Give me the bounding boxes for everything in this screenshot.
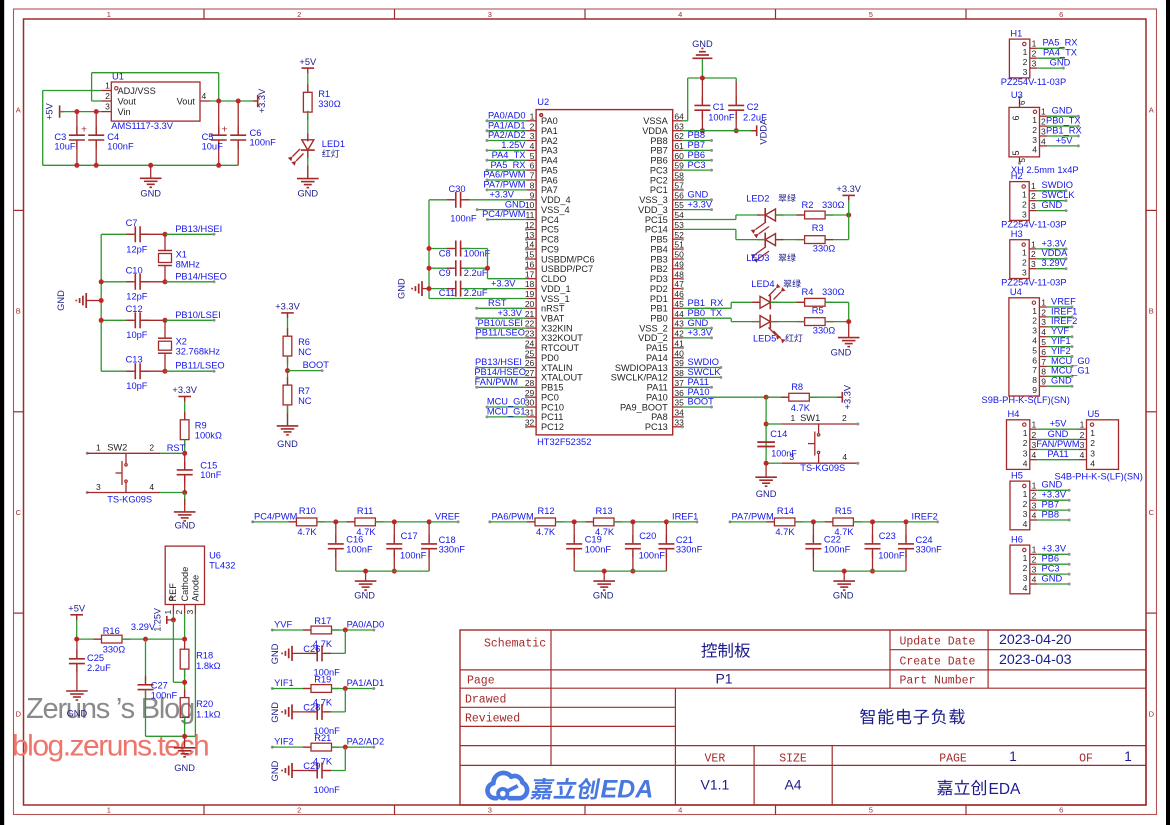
label U4 — [1010, 287, 1022, 297]
led LED5 — [752, 315, 786, 344]
open pin 52 — [681, 238, 684, 241]
net output PA0/AD0 — [347, 619, 385, 631]
capacitor C27 — [138, 639, 154, 736]
svg-text:PA2: PA2 — [541, 136, 558, 146]
capacitor C25 — [69, 639, 85, 681]
svg-text:PB8: PB8 — [1042, 509, 1060, 519]
svg-text:5: 5 — [869, 10, 873, 19]
label R4 330 — [802, 287, 845, 297]
net label SWDIO H2 pin1 — [1037, 180, 1073, 192]
svg-text:GND: GND — [1042, 573, 1063, 583]
svg-text:38: 38 — [674, 368, 684, 378]
net label PC3 pin59 — [682, 160, 713, 172]
title label Page — [467, 674, 495, 687]
svg-text:53: 53 — [674, 220, 684, 230]
svg-text:3: 3 — [1023, 448, 1028, 458]
svg-text:1: 1 — [1031, 181, 1036, 191]
svg-text:PA8: PA8 — [651, 412, 668, 422]
label H4 — [1008, 409, 1020, 419]
svg-text:BOOT: BOOT — [303, 360, 330, 370]
svg-text:PA10: PA10 — [646, 393, 668, 403]
svg-text:PB14/HSEO: PB14/HSEO — [175, 271, 227, 281]
svg-text:4: 4 — [530, 141, 535, 151]
svg-text:REF: REF — [168, 583, 178, 602]
label R21 4.7K — [313, 733, 333, 766]
connector H4 body — [1007, 420, 1038, 470]
svg-text:330Ω: 330Ω — [103, 644, 126, 654]
label U4 part number — [982, 395, 1070, 405]
svg-text:3: 3 — [1031, 201, 1036, 211]
svg-text:PB0_TX: PB0_TX — [688, 308, 723, 318]
net label GND U3 — [1047, 106, 1080, 118]
svg-text:3: 3 — [488, 10, 492, 19]
svg-text:+3.3V: +3.3V — [275, 301, 300, 311]
open pin 58 — [681, 179, 684, 182]
svg-text:100nF: 100nF — [400, 551, 427, 561]
svg-text:R4: R4 — [802, 287, 814, 297]
svg-text:VSS_3: VSS_3 — [639, 195, 668, 205]
open pin 13 — [525, 238, 528, 241]
open pin 25 — [525, 356, 528, 359]
svg-text:2: 2 — [1022, 200, 1027, 210]
svg-text:SWDIO: SWDIO — [688, 357, 720, 367]
svg-text:4: 4 — [1032, 336, 1037, 346]
label C11 2.2uF — [439, 288, 488, 298]
power flag +5V above R1 — [299, 57, 317, 92]
label H3 — [1011, 229, 1023, 239]
open pin 16 — [525, 267, 528, 270]
net label PB0_TX U3 — [1046, 116, 1081, 128]
open pin 41 — [681, 346, 684, 349]
svg-text:MCU_G0: MCU_G0 — [487, 397, 526, 407]
power flag +3.3V above R9 — [172, 385, 197, 420]
svg-text:4: 4 — [678, 10, 682, 19]
svg-text:R15: R15 — [835, 506, 852, 516]
label H6 — [1011, 534, 1023, 544]
svg-text:U5: U5 — [1088, 409, 1100, 419]
svg-text:4: 4 — [1041, 327, 1046, 337]
svg-text:PA7/PWM: PA7/PWM — [483, 180, 525, 190]
watermark blog.zeruns.tech red text — [12, 730, 208, 763]
svg-text:U4: U4 — [1010, 287, 1022, 297]
net label PA11 pin37 — [682, 377, 713, 389]
svg-text:VSS_2: VSS_2 — [639, 323, 668, 333]
net label GND H1 pin3 — [1037, 58, 1070, 70]
svg-text:2: 2 — [1022, 258, 1027, 268]
svg-text:3: 3 — [1023, 509, 1028, 519]
svg-text:100nF: 100nF — [878, 551, 905, 561]
svg-text:+5V: +5V — [68, 604, 86, 614]
wire RST node to ground — [184, 493, 186, 506]
resistor R18 — [180, 641, 189, 677]
capacitor C9 — [427, 260, 488, 276]
svg-text:GND: GND — [688, 318, 709, 328]
svg-text:PC9: PC9 — [541, 244, 559, 254]
ground LED group2 — [831, 322, 860, 358]
wire Vout left loop — [92, 73, 219, 101]
wire LED4 to R4 — [770, 301, 804, 303]
svg-text:4.7K: 4.7K — [791, 403, 811, 413]
svg-text:C27: C27 — [151, 681, 168, 691]
svg-text:6: 6 — [1032, 355, 1037, 365]
svg-text:PB2: PB2 — [650, 264, 667, 274]
svg-text:12pF: 12pF — [126, 244, 148, 254]
net label PB8 pin62 — [682, 130, 713, 142]
svg-text:PA10: PA10 — [688, 387, 710, 397]
svg-text:1: 1 — [1022, 190, 1027, 200]
capacitor C8 — [427, 241, 488, 257]
svg-text:PC15: PC15 — [645, 215, 668, 225]
svg-text:+3.3V: +3.3V — [688, 328, 713, 338]
svg-text:56: 56 — [674, 190, 684, 200]
svg-text:FAN/PWM: FAN/PWM — [475, 377, 518, 387]
svg-text:A: A — [16, 105, 21, 114]
svg-text:1: 1 — [1009, 749, 1017, 764]
net label PA10 pin36 — [688, 387, 710, 397]
svg-text:R1: R1 — [318, 89, 330, 99]
svg-text:PB6: PB6 — [688, 150, 706, 160]
svg-text:100nF: 100nF — [450, 214, 477, 224]
wire PB1 to LED4 — [682, 302, 760, 308]
net label PC3 H6 pin3 — [1037, 564, 1070, 576]
open pin 46 — [681, 297, 684, 300]
svg-text:1: 1 — [1032, 306, 1037, 316]
svg-text:4.7K: 4.7K — [536, 527, 556, 537]
label R12 4.7K — [536, 506, 556, 537]
ground rail VREF — [336, 569, 429, 601]
svg-text:1: 1 — [1124, 749, 1132, 764]
svg-text:PA4_TX: PA4_TX — [492, 150, 526, 160]
net label PC4/PWM pin11 — [482, 209, 526, 221]
watermark Zeruns blog gray text — [26, 693, 194, 725]
net label GND pin56 — [682, 190, 713, 202]
net label PB0_TX pin44 — [688, 308, 723, 318]
svg-text:C: C — [1149, 508, 1155, 517]
svg-text:YIF2: YIF2 — [274, 737, 294, 747]
label R2 330 — [802, 200, 845, 210]
label C7 12pF — [126, 218, 148, 254]
svg-text:+3.3V: +3.3V — [489, 190, 514, 200]
svg-text:VSS_4: VSS_4 — [541, 205, 570, 215]
svg-text:10pF: 10pF — [126, 381, 148, 391]
capacitor C16 — [328, 522, 344, 571]
svg-text:PA15: PA15 — [646, 343, 668, 353]
svg-text:3: 3 — [1022, 209, 1027, 219]
net input PA6/PWM — [488, 511, 535, 523]
svg-text:2: 2 — [297, 10, 301, 19]
net label YVF U4 pin4 — [1047, 326, 1074, 338]
label C2 2.2uF — [743, 102, 767, 122]
svg-text:PC2: PC2 — [650, 175, 668, 185]
title value 智能电子负载 — [860, 709, 965, 725]
svg-text:PA0/AD0: PA0/AD0 — [347, 619, 385, 629]
capacitor C28 — [292, 689, 345, 720]
net label IREF2 U4 pin3 — [1047, 316, 1077, 328]
resistor R19 — [303, 685, 374, 693]
capacitor C1 — [694, 76, 710, 134]
label R1 330 — [318, 89, 341, 109]
net label PA4_TX H1 pin2 — [1037, 48, 1077, 60]
svg-text:GND: GND — [1042, 200, 1063, 210]
open pin 14 — [525, 248, 528, 251]
svg-text:8: 8 — [530, 181, 535, 191]
svg-text:GND: GND — [688, 190, 709, 200]
svg-text:10nF: 10nF — [200, 470, 222, 480]
power flag +3.3V at regulator output — [253, 88, 267, 113]
net output PA2/AD2 — [347, 737, 385, 749]
logo JLCEDA 嘉立创EDA wordmark — [530, 776, 653, 804]
svg-text:nRST: nRST — [541, 304, 565, 314]
label U3 — [1011, 90, 1023, 100]
svg-text:+3.3V: +3.3V — [836, 184, 861, 194]
svg-text:PC14: PC14 — [645, 225, 668, 235]
svg-text:AMS1117-3.3V: AMS1117-3.3V — [111, 121, 173, 131]
svg-text:4.7K: 4.7K — [297, 527, 317, 537]
switch SW2 mechanism — [116, 453, 128, 492]
svg-text:C20: C20 — [639, 531, 656, 541]
label R13 4.7K — [595, 506, 615, 537]
svg-text:4: 4 — [678, 806, 682, 815]
resistor R20 — [180, 690, 189, 726]
svg-text:1: 1 — [1023, 428, 1028, 438]
svg-text:6: 6 — [530, 161, 535, 171]
svg-text:PAGE: PAGE — [939, 752, 967, 765]
svg-text:C2: C2 — [747, 102, 759, 112]
svg-text:6: 6 — [1059, 10, 1063, 19]
svg-text:4: 4 — [1023, 519, 1028, 529]
svg-text:61: 61 — [674, 141, 684, 151]
led LED2 — [751, 208, 784, 238]
svg-text:2: 2 — [297, 806, 301, 815]
wire H4 to U5 GND — [1037, 429, 1079, 440]
svg-text:2: 2 — [1032, 555, 1037, 565]
title label Part Number — [900, 674, 976, 687]
svg-text:EDA: EDA — [989, 781, 1022, 798]
label H5 — [1011, 470, 1023, 480]
svg-text:R11: R11 — [357, 506, 373, 516]
ground C29 — [270, 760, 292, 781]
label R11 4.7K — [356, 506, 376, 537]
net label MCU_G0 U4 pin7 — [1047, 356, 1090, 368]
wire PC15 to LED2 — [682, 215, 760, 220]
svg-text:PA3: PA3 — [541, 146, 558, 156]
svg-text:VDD_2: VDD_2 — [638, 333, 668, 343]
connector U3 body — [1009, 96, 1047, 165]
label R8 4.7K — [791, 382, 811, 413]
svg-text:+3.3V: +3.3V — [688, 199, 713, 209]
net label IREF1 U4 pin2 — [1047, 306, 1077, 318]
svg-text:GND: GND — [67, 709, 88, 719]
svg-text:+3.3V: +3.3V — [1042, 544, 1067, 554]
svg-text:+5V: +5V — [299, 57, 317, 67]
svg-text:1: 1 — [107, 10, 111, 19]
svg-text:GND: GND — [397, 278, 407, 299]
svg-text:Vin: Vin — [118, 107, 131, 117]
svg-text:62: 62 — [674, 131, 684, 141]
svg-text:27: 27 — [525, 368, 535, 378]
wire R5 to bus and ground — [825, 319, 851, 324]
resistor R8 — [766, 393, 841, 401]
connector H1 body — [1009, 39, 1037, 78]
svg-text:IREF1: IREF1 — [1051, 306, 1077, 316]
net label YIF1 U4 pin5 — [1047, 336, 1074, 348]
svg-text:GND: GND — [175, 520, 196, 530]
title value total pages 1 — [1124, 749, 1132, 764]
svg-text:C30: C30 — [449, 184, 466, 194]
svg-text:+3.3V: +3.3V — [172, 385, 197, 395]
resistor R13 — [586, 518, 669, 526]
svg-text:6: 6 — [1018, 100, 1027, 105]
label X2 32.768kHz — [176, 337, 221, 357]
svg-text:A4: A4 — [784, 777, 801, 793]
label C17 100nF — [400, 531, 427, 561]
wire +3.3V node down to R3 — [825, 215, 849, 240]
svg-text:4: 4 — [1032, 145, 1037, 155]
svg-text:C5: C5 — [202, 132, 214, 142]
svg-text:3: 3 — [1090, 448, 1095, 458]
svg-text:2: 2 — [149, 442, 154, 452]
svg-text:100nF: 100nF — [151, 690, 178, 700]
net label PB8 H5 pin4 — [1037, 509, 1070, 521]
svg-text:4.7K: 4.7K — [775, 527, 795, 537]
svg-text:330Ω: 330Ω — [822, 200, 845, 210]
wire VDDA row — [682, 130, 756, 132]
svg-text:PB11/LSEO: PB11/LSEO — [175, 360, 224, 370]
svg-text:4: 4 — [1023, 583, 1028, 593]
svg-text:59: 59 — [674, 161, 684, 171]
svg-text:H1: H1 — [1010, 28, 1022, 38]
svg-text:PB7: PB7 — [1042, 500, 1060, 510]
svg-text:RST: RST — [488, 298, 507, 308]
switch SW2 top row wire — [86, 451, 188, 456]
svg-text:GND: GND — [1052, 106, 1073, 116]
net label PA5_RX H1 pin1 — [1037, 38, 1077, 50]
led LED1 — [288, 140, 315, 166]
svg-text:Vout: Vout — [118, 96, 137, 106]
svg-text:PB1: PB1 — [650, 304, 667, 314]
svg-text:X1: X1 — [176, 250, 187, 260]
svg-text:PZ254V-11-03P: PZ254V-11-03P — [1001, 77, 1066, 87]
left black edge bar — [0, 0, 4, 825]
capacitor C15 — [177, 453, 193, 492]
title value page number 1 — [1009, 749, 1017, 764]
resistor R14 — [766, 518, 833, 526]
label C19 100nF — [585, 535, 612, 555]
svg-text:VREF: VREF — [1051, 296, 1076, 306]
title value 控制板 — [701, 643, 750, 658]
svg-text:GND: GND — [174, 763, 195, 773]
svg-text:MCU_G1: MCU_G1 — [487, 407, 526, 417]
label U3 part number XH 2.5mm 1x4P — [1011, 165, 1079, 175]
net label PB7 H5 pin3 — [1037, 500, 1070, 512]
open pin 34 — [681, 415, 684, 418]
wire H4 to U5 FAN/PWM — [1036, 439, 1079, 450]
svg-text:18: 18 — [525, 279, 535, 289]
wire VDD_4 row through C30 — [429, 199, 526, 201]
svg-text:PD3: PD3 — [650, 274, 668, 284]
svg-text:C7: C7 — [126, 218, 138, 228]
svg-text:4: 4 — [842, 452, 847, 462]
svg-text:6: 6 — [1011, 115, 1021, 120]
svg-text:C4: C4 — [107, 132, 119, 142]
svg-text:RST: RST — [167, 443, 186, 453]
svg-text:3: 3 — [1032, 565, 1037, 575]
label H1 — [1010, 28, 1022, 38]
svg-text:S9B-PH-K-S(LF)(SN): S9B-PH-K-S(LF)(SN) — [982, 395, 1070, 405]
svg-text:+3.3V: +3.3V — [257, 88, 267, 113]
capacitor C7 — [101, 226, 165, 242]
label U5 — [1088, 409, 1100, 419]
net label PB11/LSEO — [163, 360, 225, 373]
mcu U2 HT32F52352 body and pins — [525, 110, 684, 435]
svg-text:63: 63 — [674, 121, 684, 131]
svg-text:PA11: PA11 — [647, 383, 668, 393]
svg-text:VDDA: VDDA — [759, 118, 769, 145]
svg-text:TS-KG09S: TS-KG09S — [800, 463, 845, 473]
svg-text:35: 35 — [674, 398, 684, 408]
svg-text:GND: GND — [1042, 480, 1063, 490]
wire R16 to cathode node — [122, 637, 187, 642]
svg-text:22: 22 — [525, 319, 535, 329]
label R3 330 — [812, 223, 836, 253]
svg-text:VSS_1: VSS_1 — [541, 294, 570, 304]
svg-text:+3.3V: +3.3V — [1042, 238, 1067, 248]
junction dot C6 — [236, 99, 241, 104]
net label GND H5 pin1 — [1037, 480, 1070, 492]
svg-text:100nF: 100nF — [464, 248, 491, 258]
svg-text:54: 54 — [674, 210, 684, 220]
svg-text:PC3: PC3 — [688, 160, 706, 170]
net output VREF — [429, 511, 460, 523]
svg-text:330Ω: 330Ω — [822, 287, 845, 297]
capacitor C29 — [292, 747, 345, 778]
ground below R7 — [277, 413, 299, 449]
svg-text:+3.3V: +3.3V — [1042, 490, 1067, 500]
net label +3.3V pin21 — [475, 308, 526, 320]
svg-text:100nF: 100nF — [639, 551, 666, 561]
wire R7 to ground — [287, 405, 289, 426]
svg-text:100nF: 100nF — [250, 138, 277, 148]
label C29 100nF — [303, 761, 340, 795]
wire R4 to right bus — [825, 302, 849, 321]
svg-text:C26: C26 — [303, 644, 320, 654]
svg-text:LED5: LED5 — [753, 333, 776, 343]
svg-text:GND: GND — [270, 702, 280, 723]
wire R6 to R7 — [287, 356, 289, 385]
label R16 330 — [103, 626, 126, 654]
svg-text:VSSA: VSSA — [643, 116, 668, 126]
svg-text:PB8: PB8 — [688, 130, 706, 140]
svg-text:PA6: PA6 — [541, 175, 558, 185]
svg-text:C9: C9 — [439, 268, 451, 278]
open pin 40 — [681, 356, 684, 359]
wire TL432 ground rail — [146, 734, 196, 739]
svg-text:330Ω: 330Ω — [318, 99, 341, 109]
open pin 24 — [525, 346, 528, 349]
open pin 57 — [681, 188, 684, 191]
svg-text:7: 7 — [530, 171, 535, 181]
svg-text:GND: GND — [756, 489, 777, 499]
svg-text:PC5: PC5 — [541, 225, 559, 235]
svg-text:Schematic: Schematic — [484, 638, 546, 651]
svg-text:1: 1 — [1023, 47, 1028, 57]
svg-text:Create Date: Create Date — [900, 655, 976, 668]
svg-text:100nF: 100nF — [107, 142, 134, 152]
logo JLCEDA cloud mark — [488, 773, 528, 798]
label R17 4.7K — [313, 616, 333, 649]
net label +3.3V pin55 — [682, 199, 713, 211]
svg-text:5: 5 — [1011, 150, 1021, 155]
